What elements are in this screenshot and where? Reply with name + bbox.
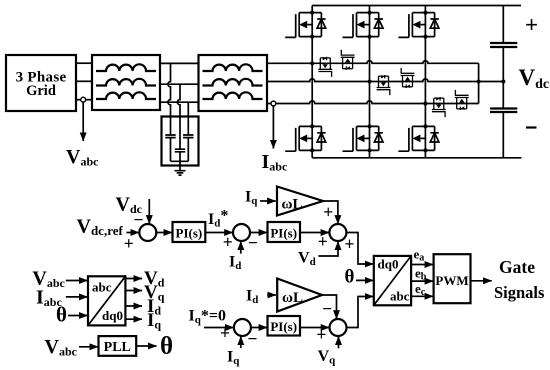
wire sum4 to PI 3: [251, 327, 267, 329]
node phase b / leg 2: [367, 79, 371, 83]
svg-text:Vdc: Vdc: [519, 65, 550, 92]
svg-text:ec: ec: [415, 281, 426, 298]
wire PI2 to sum 3: [300, 232, 329, 234]
PI controller 3: [268, 316, 301, 336]
svg-text:Iq: Iq: [227, 349, 240, 368]
PI controller 1: [173, 222, 206, 242]
dc - rail: [312, 157, 521, 159]
svg-text:ea: ea: [414, 247, 425, 264]
svg-text:Iabc: Iabc: [262, 151, 288, 174]
abc to dq0 transform block: [88, 276, 125, 325]
wire Vabc into PLL: [79, 346, 98, 348]
svg-text:Vabc: Vabc: [66, 146, 99, 169]
wire L1 to L2 (phase c): [160, 101, 199, 103]
dc + rail: [312, 5, 521, 7]
svg-text:−: −: [322, 299, 332, 319]
wire Vd out: [125, 278, 142, 280]
gain wL 2: [277, 279, 322, 312]
wire PLL out: [136, 345, 156, 347]
wire PWM out: [471, 280, 492, 282]
ground: [175, 171, 186, 175]
filter inductor bank L2: [199, 55, 268, 111]
capacitor Ca: [165, 135, 175, 161]
wire Iq up into sum 4: [240, 336, 242, 348]
filter inductor bank L1: [92, 55, 160, 110]
dq0 to abc transform block: [374, 256, 411, 305]
bidirectional switch S3a (phase c): [432, 97, 446, 117]
svg-text:+: +: [323, 202, 333, 222]
3-phase grid source: [6, 55, 76, 111]
PLL block: [99, 336, 137, 356]
svg-text:PI(s): PI(s): [176, 225, 203, 240]
wire V_dc down into sum 1: [148, 199, 150, 224]
summing junction 4: [234, 319, 251, 336]
bidirectional switch S1a (phase a): [318, 57, 332, 77]
svg-text:θ: θ: [56, 303, 67, 327]
svg-text:abc: abc: [390, 289, 410, 304]
svg-text:Vd: Vd: [298, 250, 316, 269]
svg-text:+: +: [124, 234, 134, 254]
wire sum3 to dq0 box: [346, 233, 373, 265]
switch Q4 (bottom, leg 2): [343, 124, 384, 152]
bidirectional switch S2a (phase b): [377, 75, 391, 95]
capacitor Cb: [175, 149, 185, 161]
svg-text:Vq: Vq: [318, 348, 337, 367]
capacitor tap phase c: [187, 102, 189, 135]
dc-link midpoint column: [502, 47, 504, 109]
wire eb: [411, 280, 433, 282]
PWM block: [434, 254, 471, 303]
svg-text:−: −: [248, 329, 258, 349]
capacitor tap phase b (hops over c): [177, 84, 180, 149]
summing junction 3: [329, 224, 346, 241]
dc-link capacitor C2 (lower): [490, 109, 517, 113]
wire Id up into sum 2: [240, 241, 242, 253]
bidirectional switch S1b (phase a): [341, 50, 355, 70]
PI controller 2: [268, 222, 301, 242]
capacitor tap phase a (hops over b and c): [168, 63, 171, 135]
wire ea: [411, 264, 433, 266]
svg-text:PI(s): PI(s): [270, 319, 297, 334]
wire Iq out: [125, 318, 142, 320]
svg-text:θ: θ: [345, 267, 355, 288]
svg-text:Signals: Signals: [494, 283, 545, 302]
wire grid to filter L1 (phase c): [76, 99, 92, 101]
svg-text:Vabc: Vabc: [45, 336, 78, 359]
wire grid to filter L1 (phase b): [76, 80, 92, 82]
dc-link capacitor C1 (upper): [502, 6, 504, 44]
voltage sense node on phase c: [81, 97, 86, 102]
wire Iq into gain: [260, 200, 276, 202]
svg-text:ωL: ωL: [282, 290, 303, 306]
wire gain2 into sum 5 top: [322, 295, 337, 319]
converter leg 3: [424, 6, 426, 158]
wire L1 to L2 (phase a): [160, 62, 199, 64]
switch Q3 (top, leg 2): [343, 11, 384, 39]
wire Vq up into sum 5: [338, 336, 340, 348]
wire L1 to L2 (phase b): [160, 83, 199, 85]
svg-text:Id: Id: [246, 288, 258, 307]
svg-text:PWM: PWM: [435, 273, 468, 288]
switch Q2 (bottom, leg 1): [285, 124, 326, 152]
wire PI3 to sum 5: [300, 327, 329, 329]
wire Iq* into sum 4: [204, 327, 234, 329]
svg-text:+: +: [345, 234, 355, 254]
wire grid to filter L1 (phase a): [76, 62, 92, 64]
svg-text:abc: abc: [92, 280, 112, 295]
wire sum5 to dq0 box: [347, 297, 374, 328]
node dc-link midpoint: [501, 79, 505, 83]
filter capacitor bank box: [162, 117, 199, 166]
label - (dc negative): [526, 126, 537, 128]
wire ec: [411, 295, 433, 297]
svg-text:+: +: [318, 232, 328, 252]
svg-text:+: +: [220, 323, 230, 343]
I_abc sense arrow: [272, 106, 274, 149]
svg-text:dq0: dq0: [102, 308, 123, 323]
node phase a / leg 1: [310, 61, 314, 65]
wire gain1 into sum 3 top: [323, 201, 338, 224]
midpoint bus vertical: [478, 63, 480, 103]
wire Vabc into abc/dq0: [66, 280, 88, 282]
svg-text:θ: θ: [160, 333, 173, 360]
svg-text:+: +: [223, 232, 233, 252]
svg-text:Id*: Id*: [208, 208, 228, 230]
node midpoint bus: [477, 79, 481, 83]
capacitor common bus: [171, 161, 189, 170]
phase c wire to converter (hops legs 1,2): [267, 101, 479, 104]
wire sum1 to PI 1: [156, 232, 172, 234]
svg-text:+: +: [525, 13, 538, 38]
wire Iabc into abc/dq0: [66, 296, 88, 298]
converter leg 2: [369, 6, 371, 158]
switch Q6 (bottom, leg 3): [398, 124, 439, 152]
wire PI1 to sum 2: [205, 232, 233, 234]
converter leg 1: [311, 6, 313, 158]
summing junction 5: [330, 319, 347, 336]
svg-text:Gate: Gate: [499, 257, 535, 277]
svg-text:Iq: Iq: [245, 189, 258, 208]
wire Vd into sum 3 bottom: [318, 241, 338, 256]
svg-text:Id: Id: [229, 254, 241, 273]
svg-text:PLL: PLL: [104, 340, 131, 355]
summing junction 2: [233, 224, 250, 241]
bidirectional switch S3b (phase c): [455, 90, 469, 110]
current sense node on phase c: [271, 101, 276, 106]
wire sum2 to PI 2: [250, 232, 267, 234]
wire V_dc,ref into sum 1: [126, 232, 139, 234]
svg-text:Grid: Grid: [26, 83, 56, 99]
wire theta into dq0: [356, 279, 373, 281]
svg-text:ωL: ωL: [282, 197, 303, 213]
V_abc sense arrow: [82, 102, 84, 141]
svg-text:+: +: [316, 325, 326, 345]
bidirectional switch S2b (phase b): [401, 68, 415, 88]
svg-text:−: −: [248, 233, 258, 253]
summing junction 1: [139, 224, 156, 241]
svg-text:Vdc,ref: Vdc,ref: [77, 215, 124, 238]
switch Q1 (top, leg 1): [285, 11, 326, 39]
svg-text:PI(s): PI(s): [270, 225, 297, 240]
switch Q5 (top, leg 3): [398, 11, 439, 39]
capacitor Cc: [183, 135, 193, 161]
svg-text:dq0: dq0: [378, 257, 399, 272]
gain wL 1: [277, 187, 323, 216]
wire Id into gain 2: [267, 294, 276, 296]
wire Vq out: [125, 290, 142, 292]
phase b wire to dc midpoint (hops legs 1,3): [267, 79, 503, 82]
wire theta into abc/dq0: [68, 315, 88, 317]
wire Id out: [125, 305, 142, 307]
node phase c / leg 3: [423, 101, 427, 105]
phase a wire to converter (hops legs 2,3): [267, 61, 479, 64]
svg-text:eb: eb: [415, 266, 427, 283]
